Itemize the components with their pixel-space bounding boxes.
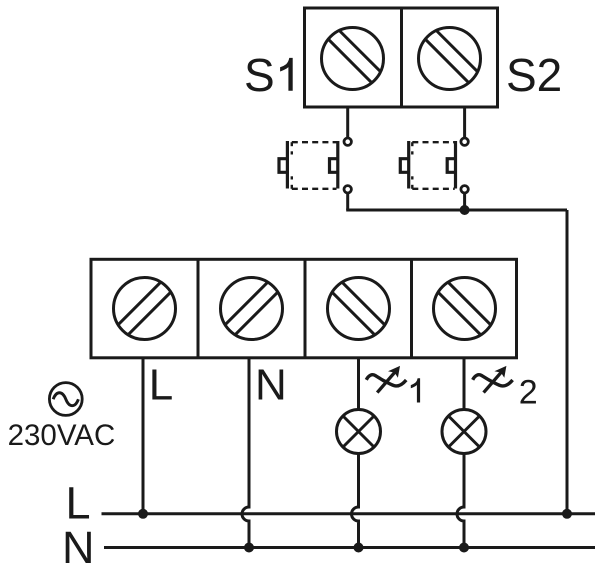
N supply rail xyxy=(104,546,595,549)
svg-text:S2: S2 xyxy=(506,49,562,101)
junction dot button bus xyxy=(460,205,470,215)
svg-text:L: L xyxy=(66,478,91,529)
junction dot N rail terminal N xyxy=(244,543,254,553)
push-button switch 2 xyxy=(400,138,468,193)
push-button switch 1 xyxy=(279,138,351,193)
lamp 2 xyxy=(442,410,486,454)
screw terminal N xyxy=(221,278,283,340)
AC source symbol xyxy=(49,383,82,416)
svg-text:2: 2 xyxy=(519,374,538,412)
wire S1 to push-button 1 xyxy=(346,107,349,138)
junction dot L rail left xyxy=(138,509,148,519)
main block divider 3 xyxy=(410,259,413,358)
screw terminal output 1 xyxy=(328,278,390,340)
main terminal block outline xyxy=(91,259,517,358)
main block divider 2 xyxy=(304,259,307,358)
screw terminal output 2 xyxy=(434,278,496,340)
lamp 1 xyxy=(337,410,381,454)
screw terminal S1 xyxy=(322,28,384,90)
wire L terminal down to L rail xyxy=(142,358,145,514)
svg-text:N: N xyxy=(255,360,287,409)
svg-text:L: L xyxy=(149,360,173,409)
L supply rail xyxy=(102,512,596,515)
junction dot N rail lamp 1 xyxy=(354,543,364,553)
wire lamp 2 to N rail with hop over L rail xyxy=(457,454,464,548)
wire lamp 1 to N rail with hop over L rail xyxy=(352,454,359,548)
dimmer arrow symbol 1 xyxy=(366,366,406,393)
wire button1 bottom to bus xyxy=(346,194,349,211)
wire S2 to push-button 2 xyxy=(463,107,466,138)
wire output2 to lamp 2 xyxy=(463,358,466,410)
terminal block S1/S2 divider xyxy=(400,8,403,107)
main block divider 1 xyxy=(197,259,200,358)
label dimmer 1 xyxy=(411,378,420,402)
terminal block S1/S2 outline xyxy=(305,8,498,107)
wire bus down right side to L rail xyxy=(566,210,569,514)
screw terminal S2 xyxy=(419,28,481,90)
screw terminal L xyxy=(114,278,176,340)
wire N terminal down with hop over L rail xyxy=(242,358,249,548)
dimmer arrow symbol 2 xyxy=(473,366,513,393)
wire output1 to lamp 1 xyxy=(357,358,360,410)
svg-text:230VAC: 230VAC xyxy=(8,419,116,452)
junction dot L rail right xyxy=(562,509,572,519)
horizontal switch bus wire xyxy=(346,209,567,212)
wire button2 bottom to bus xyxy=(463,194,466,211)
junction dot N rail lamp 2 xyxy=(459,543,469,553)
svg-text:S: S xyxy=(244,49,275,101)
svg-text:N: N xyxy=(62,522,95,565)
